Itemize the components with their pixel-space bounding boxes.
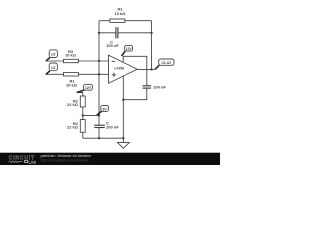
net flag U1-U2 output [155, 59, 174, 70]
junction feedback cap rail left [98, 32, 100, 34]
svg-text:LF356: LF356 [114, 67, 124, 71]
junction feedback cap rail right [150, 32, 152, 34]
wire U1 input to R1 [46, 73, 64, 75]
wire output node [137, 68, 155, 70]
svg-text:12V: 12V [126, 47, 133, 51]
wire cap rail left [99, 32, 116, 34]
wire divider cap to ground rail [98, 128, 100, 139]
svg-text:10 kΩ: 10 kΩ [115, 11, 127, 16]
capacitor 100 nF supply decoupling [143, 86, 152, 88]
net flag U2 input [46, 50, 58, 61]
wire upper R2 to divider mid node [82, 107, 84, 115]
wire 12V flag to divider top [82, 93, 84, 96]
junction inverting input node [98, 60, 100, 62]
resistor R2 (22 k upper divider) [80, 96, 85, 107]
wire decoupling cap to ground net [123, 88, 147, 100]
junction non-inverting input node [98, 73, 100, 75]
capacitor C 100 nF divider [94, 125, 105, 127]
svg-text:22 kΩ: 22 kΩ [67, 102, 79, 107]
svg-text:U2: U2 [51, 53, 55, 57]
wire feedback top rail left [99, 20, 110, 22]
wire divider mid node horizontal (6V net) [83, 114, 99, 116]
junction ground rail at ground symbol [122, 137, 124, 139]
svg-text:100 nF: 100 nF [106, 43, 119, 48]
wire cap rail right [118, 32, 152, 34]
svg-text:12V: 12V [85, 86, 92, 90]
capacitor C 100 nF feedback [116, 27, 118, 38]
junction 6V node [98, 114, 100, 116]
svg-text:10 kΩ: 10 kΩ [66, 82, 78, 87]
op-amp non-inverting input marker [112, 73, 116, 77]
svg-text:22 kΩ: 22 kΩ [67, 125, 79, 130]
power flag 12V at op-amp V+ pin [122, 45, 133, 56]
wire ground rail [83, 137, 124, 139]
resistor R3 (10 k upper input) [63, 59, 78, 62]
power flag 12V at divider top [77, 84, 93, 92]
junction output node [150, 68, 152, 70]
junction divider cap at ground rail [98, 137, 100, 139]
wire op-amp V+ supply pin to decoupling cap [123, 56, 147, 85]
op-amp U1 LF356 triangle [109, 55, 138, 83]
wire R3 to op-amp inverting input [78, 60, 108, 62]
CircuitLab logo squiggle [9, 161, 23, 163]
resistor R1 (10 k lower input) [63, 73, 78, 76]
svg-text:U1-U2: U1-U2 [162, 61, 172, 65]
net flag U1 input [46, 63, 58, 74]
svg-text:100 nF: 100 nF [106, 125, 119, 130]
svg-text:LAB: LAB [28, 160, 36, 164]
ground [118, 138, 130, 148]
wire feedback top rail right [125, 20, 152, 22]
net flag 6V divider mid node [97, 105, 109, 115]
wire U2 input to R3 [46, 60, 64, 62]
wire divider mid node to lower R2 [82, 115, 84, 119]
wire R1 to op-amp non-inverting input [78, 73, 108, 75]
CircuitLab logo resistor box [24, 161, 27, 163]
junction decoupling cap to V- wire [122, 99, 124, 101]
op-amp inverting input marker [112, 60, 115, 62]
wire feedback left vertical (inverting node to R1/C loop) [98, 21, 100, 116]
svg-text:U1: U1 [51, 66, 55, 70]
svg-text:6V: 6V [103, 107, 108, 111]
resistor R1 (feedback 10 k) [110, 19, 125, 22]
wire 6V node down to divider cap [98, 115, 100, 125]
svg-text:10 kΩ: 10 kΩ [65, 52, 77, 57]
wire op-amp V- supply pin down to ground rail [122, 76, 124, 138]
footer bar [0, 153, 220, 165]
svg-text:100 nF: 100 nF [153, 84, 166, 89]
wire feedback right vertical (loop to output node) [151, 21, 153, 70]
resistor R2 (22 k lower divider) [80, 120, 85, 133]
wire lower R2 to ground rail [82, 132, 84, 138]
svg-text:http://circuitlab.com/c6vg4vk: http://circuitlab.com/c6vg4vk [41, 158, 89, 162]
junction divider mid node [82, 114, 84, 116]
